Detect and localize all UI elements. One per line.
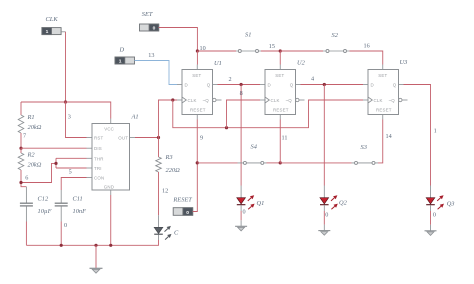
svg-text:U3: U3 — [400, 59, 408, 66]
svg-text:C: C — [174, 229, 179, 236]
LED C — [154, 215, 179, 240]
wire CLK to rail — [65, 32, 67, 102]
svg-text:OUT: OUT — [118, 136, 128, 141]
svg-text:C12: C12 — [38, 195, 49, 202]
node 10 junction — [196, 49, 199, 52]
svg-text:Q2: Q2 — [339, 200, 348, 207]
svg-text:GND: GND — [104, 184, 114, 189]
node CLK junction — [171, 98, 174, 101]
svg-text:14: 14 — [386, 133, 392, 140]
svg-text:RESET: RESET — [190, 108, 206, 113]
svg-text:A1: A1 — [131, 113, 139, 120]
digital constant CLK — [42, 16, 66, 35]
svg-text:20kΩ: 20kΩ — [28, 124, 42, 131]
svg-text:D: D — [185, 82, 188, 87]
svg-text:SET: SET — [275, 73, 284, 78]
wire SET to U1 — [159, 28, 198, 52]
wire U3.Q feed — [404, 85, 431, 186]
svg-text:C11: C11 — [73, 195, 83, 202]
resistor R1 — [18, 102, 42, 148]
svg-text:220Ω: 220Ω — [166, 167, 181, 174]
wire clock rail — [173, 100, 363, 128]
LED Q2 — [318, 186, 347, 236]
wire A1 GND to rail — [110, 195, 112, 245]
wire RESET input — [193, 163, 198, 212]
svg-text:9: 9 — [200, 135, 203, 142]
svg-text:SET: SET — [142, 11, 153, 18]
svg-text:4: 4 — [311, 76, 314, 83]
svg-text:Q: Q — [207, 82, 211, 87]
wire clock riser U2 — [227, 100, 261, 128]
svg-text:SET: SET — [378, 73, 387, 78]
svg-text:S3: S3 — [361, 144, 367, 151]
digital constant RESET — [172, 196, 192, 216]
op-amp A1 (555 timer) — [87, 113, 139, 195]
svg-text:~Q: ~Q — [389, 98, 396, 103]
svg-text:TRI: TRI — [94, 166, 102, 171]
svg-text:8: 8 — [240, 90, 243, 97]
wire ground rail — [26, 240, 158, 245]
svg-text:R3: R3 — [165, 154, 173, 161]
switch S3 — [280, 120, 383, 165]
resistor R3 — [156, 138, 180, 216]
svg-text:D: D — [371, 82, 374, 87]
svg-text:7: 7 — [23, 132, 26, 139]
wire node3 to RST — [66, 102, 87, 138]
LED Q1 — [235, 186, 264, 231]
svg-text:D: D — [119, 47, 125, 54]
LED Q3 — [425, 186, 455, 236]
svg-text:2: 2 — [229, 76, 232, 83]
svg-text:Q1: Q1 — [257, 200, 265, 207]
wire U1 reset riser — [196, 120, 198, 163]
digital constant D — [115, 47, 135, 65]
wire CON to C11 — [61, 178, 86, 191]
svg-text:13: 13 — [148, 52, 154, 59]
svg-text:RESET: RESET — [376, 108, 392, 113]
flip-flop U3 — [363, 59, 408, 120]
svg-text:SET: SET — [192, 73, 201, 78]
svg-text:VCC: VCC — [104, 127, 114, 132]
svg-text:CLK: CLK — [188, 98, 197, 103]
ground — [90, 245, 103, 273]
svg-text:11: 11 — [282, 135, 288, 142]
svg-text:CLK: CLK — [271, 98, 280, 103]
wire THR/TRI tie — [55, 158, 57, 168]
switch S1 — [197, 32, 280, 53]
svg-text:R1: R1 — [27, 114, 35, 121]
svg-text:CON: CON — [94, 176, 104, 181]
node 2 junction — [240, 83, 243, 86]
wire node 6 rail — [21, 163, 56, 182]
svg-text:~Q: ~Q — [203, 98, 210, 103]
svg-text:1: 1 — [434, 128, 437, 135]
svg-text:0: 0 — [186, 210, 189, 216]
capacitor C11 — [55, 190, 86, 245]
svg-text:0: 0 — [153, 25, 156, 31]
wire top rail — [21, 102, 111, 119]
wire U2.Q to U3.D — [301, 84, 364, 86]
wire OUT riser to CLK row — [159, 100, 178, 138]
svg-text:0: 0 — [243, 209, 246, 216]
svg-text:Q: Q — [290, 82, 294, 87]
svg-text:16: 16 — [364, 43, 370, 50]
wire Q2 feed — [323, 85, 325, 186]
svg-text:RST: RST — [94, 136, 103, 141]
node 15 junction — [279, 49, 282, 52]
flip-flop U2 — [260, 60, 306, 120]
wire TRI — [56, 167, 87, 169]
node OUT junction — [157, 136, 160, 139]
svg-text:CLK: CLK — [46, 16, 59, 23]
svg-text:DIS: DIS — [94, 146, 102, 151]
node 3 junction — [64, 100, 67, 103]
node 11 junction — [279, 161, 282, 164]
svg-text:10µF: 10µF — [38, 208, 52, 215]
svg-text:S2: S2 — [332, 32, 339, 39]
svg-text:0: 0 — [325, 211, 328, 218]
wire THR — [56, 157, 87, 159]
svg-text:20kΩ: 20kΩ — [28, 161, 42, 168]
wire U2 reset riser — [279, 120, 281, 163]
capacitor C12 — [20, 187, 52, 246]
svg-text:U2: U2 — [297, 60, 306, 67]
svg-text:CLK: CLK — [374, 98, 383, 103]
wire Q1 feed — [240, 85, 242, 186]
node 9 junction — [196, 161, 199, 164]
svg-text:10nF: 10nF — [73, 208, 87, 215]
switch S4 — [197, 144, 280, 165]
svg-text:1: 1 — [46, 29, 49, 35]
svg-text:RESET: RESET — [172, 196, 192, 203]
digital constant SET — [140, 11, 159, 32]
switch S2 — [280, 32, 383, 65]
svg-text:3: 3 — [68, 114, 71, 121]
svg-text:0: 0 — [64, 222, 67, 229]
svg-text:~Q: ~Q — [286, 98, 293, 103]
wire D (blue) — [135, 61, 178, 85]
resistor R2 — [18, 148, 42, 182]
svg-text:6: 6 — [25, 175, 28, 182]
svg-text:D: D — [268, 82, 271, 87]
svg-text:0: 0 — [433, 211, 436, 218]
wire DIS — [21, 147, 87, 149]
svg-text:R2: R2 — [27, 152, 36, 159]
svg-text:15: 15 — [269, 43, 275, 50]
node 4 junction — [323, 83, 326, 86]
node 7 junction — [19, 147, 22, 150]
svg-text:1: 1 — [119, 58, 122, 64]
wire OUT — [135, 137, 159, 139]
flip-flop U1 — [177, 60, 222, 120]
svg-text:Q: Q — [393, 82, 397, 87]
svg-text:U1: U1 — [214, 60, 222, 67]
svg-text:S4: S4 — [251, 144, 258, 151]
node 6 junction — [19, 181, 22, 184]
svg-text:Q3: Q3 — [447, 201, 455, 208]
wire U1.Q to U2.D — [218, 84, 261, 86]
svg-text:S1: S1 — [245, 32, 251, 39]
svg-text:5: 5 — [69, 168, 72, 175]
svg-text:12: 12 — [162, 188, 168, 195]
svg-text:THR: THR — [94, 156, 104, 161]
svg-text:RESET: RESET — [273, 108, 289, 113]
